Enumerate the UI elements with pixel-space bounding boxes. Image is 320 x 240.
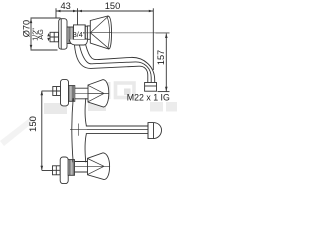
svg-text:AG: AG <box>36 29 45 40</box>
svg-text:43: 43 <box>61 1 71 11</box>
svg-text:3/4": 3/4" <box>73 30 86 39</box>
body column right edge upper <box>85 98 86 126</box>
body column right edge lower <box>85 134 86 163</box>
plan aerator cap <box>148 123 162 139</box>
dimension 150 line <box>78 10 154 12</box>
body column left edge <box>72 98 73 162</box>
double arrow for 1/2 thread <box>47 33 49 41</box>
watermark band right of column <box>88 102 106 111</box>
exposed thread hatch <box>67 27 74 44</box>
bottom escutcheon <box>60 157 68 184</box>
svg-text:150: 150 <box>28 116 39 132</box>
handle stem <box>85 25 87 40</box>
svg-text:157: 157 <box>156 50 166 65</box>
handle fan side view <box>90 16 111 49</box>
centerline of valve axis <box>86 32 170 34</box>
spout bottom line <box>75 45 148 83</box>
handle inner cap line <box>107 17 109 48</box>
watermark square letter <box>116 83 135 98</box>
extension line top connection <box>42 90 53 92</box>
extension line left of 43 <box>55 8 57 18</box>
top thread hatch <box>69 86 75 102</box>
escutcheon face line <box>60 19 62 49</box>
bottom handle fan <box>88 153 110 180</box>
wall tailpiece 1/2 AG <box>50 32 59 42</box>
top escutcheon <box>61 79 69 106</box>
top tailpiece <box>53 87 61 96</box>
extension line bottom connection <box>42 170 53 172</box>
svg-text:150: 150 <box>105 1 121 11</box>
watermark diagonal streak bottom-left <box>0 117 35 146</box>
svg-text:M22 x 1 IG: M22 x 1 IG <box>127 92 170 102</box>
watermark top-right block 2 <box>166 102 177 112</box>
valve body side view <box>74 25 86 40</box>
dimension 43 line <box>56 10 78 12</box>
extension line right of 150 <box>152 8 154 70</box>
dimension 157 top extension <box>156 32 170 34</box>
plan spout bottom edge <box>86 133 148 135</box>
watermark top-right block <box>150 102 163 112</box>
watermark band left-middle <box>44 103 67 114</box>
spout axis cross vertical <box>78 124 80 136</box>
plan spout mid line <box>87 129 148 131</box>
extension line bottom of escutcheon <box>31 49 58 51</box>
escutcheon side view <box>59 19 67 50</box>
spout middle line <box>80 45 152 82</box>
extension line right of 43 <box>77 8 79 24</box>
spout axis cross horizontal <box>70 129 87 131</box>
bottom tailpiece <box>53 166 61 175</box>
dimension 157 bottom extension <box>158 91 170 93</box>
plan spout top edge <box>86 125 148 127</box>
dimension 157 line <box>165 34 167 92</box>
dimension 150 vertical line <box>41 91 43 171</box>
bottom thread hatch <box>68 160 74 176</box>
aerator nut <box>145 83 157 92</box>
extension line top of escutcheon <box>31 17 61 19</box>
watermark bar <box>106 82 111 99</box>
bottom valve neck <box>75 162 88 173</box>
spout union nut bulge <box>70 40 88 45</box>
top handle fan <box>88 80 109 107</box>
top valve neck <box>75 88 88 99</box>
watermark square dot <box>124 89 131 96</box>
diameter 70 dimension line <box>30 19 32 50</box>
spout end vertical <box>147 123 149 139</box>
aerator cap facet <box>153 123 155 139</box>
handle spokes <box>90 16 111 48</box>
spout top line <box>86 45 155 83</box>
